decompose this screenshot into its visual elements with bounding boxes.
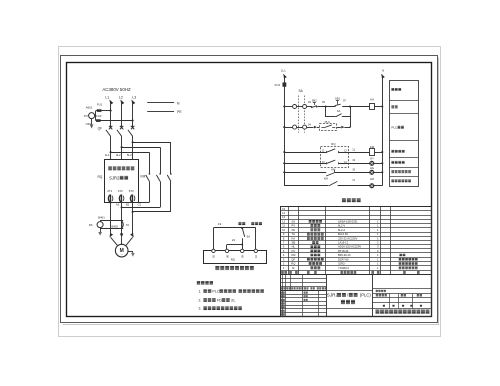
node bypass tap L1 — [110, 151, 112, 153]
wire PA top — [100, 220, 123, 222]
svg-text:B401: B401 — [98, 215, 105, 219]
wire lamp HG to N — [374, 172, 382, 174]
label fuse row — [391, 88, 394, 91]
caption control terminals — [215, 266, 219, 270]
svg-text:HG: HG — [370, 166, 374, 170]
BOM header row — [281, 271, 284, 274]
svg-text:1L1: 1L1 — [281, 68, 286, 72]
wire common right leg — [255, 228, 257, 249]
svg-text:C2: C2 — [138, 203, 142, 207]
starter RQ output dashed box — [321, 147, 349, 168]
wire to motor W — [126, 237, 133, 245]
N tap arrow — [380, 73, 385, 79]
PV ground arrow — [91, 119, 93, 125]
svg-text:A601: A601 — [86, 105, 93, 109]
wire rung1 — [284, 106, 292, 108]
wire phase L2 lower — [121, 136, 123, 160]
svg-text:PV: PV — [292, 224, 296, 228]
wire KM pole2 lower — [160, 181, 162, 207]
svg-text:N: N — [382, 68, 384, 72]
svg-text:DZ47-60: DZ47-60 — [338, 257, 349, 261]
title block signature grid — [280, 294, 326, 296]
inner border frame — [67, 63, 432, 317]
svg-text:SJR2: SJR2 — [327, 293, 339, 298]
svg-text:KM: KM — [141, 174, 146, 178]
wire FU1 to L1 — [96, 110, 111, 112]
wire PE — [147, 111, 174, 113]
wire phase L3 upper — [132, 104, 134, 128]
svg-text:6L2-A: 6L2-A — [338, 228, 345, 232]
wire PA bottom — [100, 228, 123, 230]
label run indication row — [391, 180, 394, 183]
fuse FU3 — [283, 82, 287, 86]
drawing code — [376, 290, 378, 292]
selector SA contact b1 — [293, 125, 297, 129]
node rail rungA — [283, 151, 285, 153]
svg-text:B2: B2 — [126, 203, 130, 207]
wire KM pole1 lower — [149, 181, 151, 202]
wire phase L2 upper — [121, 104, 123, 128]
selector SA contact a1 — [293, 105, 297, 109]
contactor KM pole blade — [159, 173, 161, 175]
node rail rungC — [283, 171, 285, 173]
node rail rung2 — [283, 126, 285, 128]
supply arrow L3 — [130, 99, 135, 105]
svg-text:TA: TA — [126, 223, 130, 227]
tap arrow L1 — [282, 73, 287, 79]
starter output terminal bushing — [119, 195, 120, 202]
svg-text:FD: FD — [217, 298, 222, 302]
supply arrow L1 — [108, 99, 113, 105]
caption secondary circuit — [342, 198, 346, 202]
wire FU2 to L3 — [96, 120, 133, 122]
terminal t1 — [212, 249, 215, 252]
drawing title line2 — [341, 300, 345, 304]
svg-text:SA: SA — [246, 234, 250, 238]
wire bypass out 2 — [122, 207, 161, 209]
breaker QF pole blade — [106, 130, 111, 136]
svg-text:KM: KM — [324, 177, 328, 181]
node junction L1/FU1 — [110, 110, 112, 112]
signature labels — [281, 292, 283, 294]
node rail rung1 — [283, 105, 285, 107]
svg-text:HR: HR — [370, 177, 374, 181]
node N rung1 — [381, 105, 383, 107]
svg-text:SJR2: SJR2 — [109, 175, 120, 180]
svg-text:SB2: SB2 — [312, 98, 317, 102]
terminal t2 — [225, 249, 228, 252]
wire left rail — [284, 87, 286, 186]
wire 19 left leg — [213, 228, 215, 249]
wire lamp HY to N — [374, 163, 382, 165]
svg-text:2.: 2. — [199, 298, 202, 302]
motor M — [115, 244, 128, 257]
svg-text:PV: PV — [84, 114, 88, 118]
svg-text:SA: SA — [292, 219, 296, 223]
wire lamp HR to N — [374, 185, 382, 187]
svg-text:2T1: 2T1 — [107, 189, 112, 193]
selector SA contact b2 — [303, 125, 307, 129]
node rail rungB — [283, 162, 285, 164]
wire seal-in branch down — [325, 107, 327, 118]
label start-stop — [238, 222, 241, 225]
selector SA linkage dashes — [298, 96, 300, 133]
svg-text:HY: HY — [370, 157, 374, 161]
wire PV vertical — [95, 111, 97, 121]
node junction seal-in right — [349, 105, 351, 107]
revision row labels — [281, 287, 283, 289]
node N rungB — [381, 162, 383, 164]
motor feed arrow U — [108, 233, 113, 238]
wire N — [147, 102, 174, 104]
svg-text:KA: KA — [337, 109, 341, 113]
breaker QF pole contact X — [120, 126, 123, 129]
wire N rail — [382, 78, 384, 186]
node junction L3/FU2 — [132, 120, 134, 122]
BOM table grid — [280, 207, 432, 276]
svg-text:PA: PA — [89, 223, 93, 227]
selector SA blade on terminal 3 — [241, 227, 243, 229]
motor ground — [128, 251, 133, 253]
svg-text:1.: 1. — [199, 290, 202, 294]
flow arrow into PLC — [314, 126, 317, 129]
wire phase L1 lower — [110, 136, 112, 160]
PLC output dashed box — [320, 124, 337, 131]
svg-text:AD16-22D AC220V: AD16-22D AC220V — [338, 245, 361, 249]
svg-text:15: 15 — [352, 167, 355, 171]
svg-text:QF: QF — [291, 257, 295, 261]
terminal t3 — [241, 249, 244, 252]
svg-text:LW5A-16D/1331: LW5A-16D/1331 — [338, 219, 358, 223]
svg-text:Y160M-4: Y160M-4 — [338, 266, 349, 270]
relay coil KA — [370, 104, 375, 110]
title block outline — [281, 275, 432, 317]
svg-text:PLC: PLC — [325, 120, 330, 124]
svg-text:31.: 31. — [231, 298, 236, 302]
wire PLC branch up — [350, 117, 352, 127]
label common — [251, 222, 254, 225]
node N rungC — [381, 171, 383, 173]
breaker QF pole blade — [117, 130, 122, 136]
svg-text:RT18-32: RT18-32 — [338, 249, 349, 253]
title block right zone — [372, 275, 374, 317]
wire bypass out 1 — [111, 202, 150, 204]
node N rungA — [381, 151, 383, 153]
label manual row — [391, 105, 394, 108]
wire phase L1 upper — [110, 104, 112, 128]
svg-text:17: 17 — [352, 178, 355, 182]
wire to motor U — [111, 237, 118, 245]
svg-text:L3: L3 — [132, 95, 136, 99]
svg-text:KM: KM — [370, 145, 375, 149]
supply arrow L2 — [119, 99, 124, 105]
wire motor line W — [132, 202, 134, 233]
svg-text:PE: PE — [177, 110, 182, 114]
outer border frame — [61, 56, 438, 323]
motor feed arrow V — [120, 233, 123, 237]
title block revision rows — [280, 278, 326, 280]
wire motor line U — [110, 202, 112, 233]
fuse FU2 — [96, 119, 101, 122]
svg-text:B25-30-10: B25-30-10 — [338, 253, 351, 257]
terminal t4 — [254, 249, 257, 252]
svg-text:B402: B402 — [112, 225, 119, 229]
svg-text:KA: KA — [292, 236, 296, 240]
wire phase L3 lower — [132, 136, 134, 160]
wire KM pole3 lower — [170, 181, 172, 212]
node wire21 junction — [241, 244, 243, 246]
wire to motor V — [121, 237, 123, 244]
title box bottom line — [326, 308, 373, 310]
wire rungB — [284, 163, 326, 165]
voltmeter PV — [89, 113, 95, 119]
svg-text:21: 21 — [232, 238, 236, 242]
svg-text:L2: L2 — [119, 95, 123, 99]
PA ground arrow — [100, 229, 102, 232]
technical notes title — [197, 281, 200, 285]
current transformer TA — [122, 221, 124, 229]
svg-text:5L3: 5L3 — [127, 153, 132, 157]
svg-text:QF: QF — [98, 126, 102, 130]
label stop indication row — [391, 170, 394, 173]
svg-text:19: 19 — [218, 222, 222, 226]
wire 19 top — [213, 227, 255, 229]
soft starter RQ name line1 — [108, 166, 112, 170]
contactor KM pole blade — [170, 173, 172, 175]
svg-text:13: 13 — [352, 158, 355, 162]
svg-text:1L1: 1L1 — [105, 153, 110, 157]
wire seal-in branch up — [350, 107, 352, 118]
ammeter PA — [97, 222, 103, 228]
company name — [376, 310, 380, 314]
wire bypass top 3 — [133, 142, 171, 144]
svg-text:KA: KA — [370, 97, 374, 101]
svg-text:PLC: PLC — [212, 290, 219, 294]
wire rung2 — [284, 127, 292, 129]
svg-text:FU2: FU2 — [96, 114, 102, 118]
fuse FU1 — [97, 109, 102, 112]
wire bypass top 1 — [111, 152, 150, 154]
svg-text:~: ~ — [121, 253, 123, 257]
PLC output contact — [321, 127, 324, 129]
contactor coil KM — [370, 149, 375, 156]
svg-text:4T2: 4T2 — [118, 189, 123, 193]
starter control terminal box — [204, 251, 267, 264]
breaker QF pole blade — [128, 130, 133, 136]
breaker QF pole contact X — [109, 126, 112, 129]
wire terminal3 leg — [242, 238, 244, 249]
svg-text:FU3: FU3 — [275, 83, 281, 87]
svg-text:A2: A2 — [116, 203, 120, 207]
label fault indication row — [391, 161, 394, 164]
svg-text:RQ: RQ — [98, 175, 103, 179]
svg-text:6L2-V: 6L2-V — [338, 224, 345, 228]
svg-text:(PLC): (PLC) — [360, 293, 372, 298]
svg-text:TA: TA — [292, 232, 295, 236]
svg-text:SJR2-: SJR2- — [338, 262, 346, 266]
wire motor line V — [121, 202, 123, 233]
wire rungC — [284, 172, 326, 174]
svg-text:FU: FU — [292, 249, 296, 253]
svg-text:L1: L1 — [105, 95, 109, 99]
soft starter RQ box — [105, 160, 139, 203]
wire bypass top 2 — [122, 147, 161, 149]
svg-text:SB1: SB1 — [335, 97, 340, 101]
function label column — [390, 81, 419, 187]
sheet edge (light outline) — [59, 47, 441, 337]
svg-text:HL: HL — [292, 245, 296, 249]
stage mark labels — [376, 294, 378, 296]
label bypass run row — [391, 150, 394, 153]
motor feed arrow W — [130, 233, 135, 238]
wire KM coil to N — [374, 152, 382, 154]
wire rail top — [284, 78, 286, 82]
selector SA contact a2 — [303, 105, 307, 109]
breaker QF pole contact X — [131, 126, 134, 129]
wire 21 — [227, 244, 242, 246]
svg-text:3.: 3. — [199, 307, 202, 311]
node bypass tap L2 — [121, 146, 123, 148]
node bypass tap L3 — [132, 141, 134, 143]
svg-text:AC380V 50HZ: AC380V 50HZ — [102, 87, 131, 92]
node junction seal-in left — [325, 105, 327, 107]
svg-text:LA19-11: LA19-11 — [338, 241, 348, 245]
svg-text:PA: PA — [292, 228, 296, 232]
wire rungA — [284, 152, 326, 154]
wire rungD — [284, 172, 286, 186]
svg-text:6T3: 6T3 — [129, 189, 134, 193]
svg-text:PLC: PLC — [391, 126, 398, 130]
svg-text:JZX-22 AC220V: JZX-22 AC220V — [338, 236, 357, 240]
starter output terminal bushing — [108, 195, 109, 202]
wire bypass out 3 — [133, 211, 171, 213]
flow arrow out of PLC — [341, 126, 344, 129]
contactor KM pole blade — [149, 173, 151, 175]
svg-text:3L2: 3L2 — [116, 153, 121, 157]
sheet count marks — [383, 305, 385, 307]
starter output terminal bushing — [130, 195, 131, 202]
svg-text:FU1: FU1 — [97, 103, 103, 107]
svg-text:RQ: RQ — [291, 262, 295, 266]
svg-text:BH-0.66: BH-0.66 — [338, 232, 348, 236]
svg-text:11: 11 — [352, 148, 355, 152]
wire KA coil to N — [374, 106, 382, 108]
svg-text:SB: SB — [292, 241, 296, 245]
